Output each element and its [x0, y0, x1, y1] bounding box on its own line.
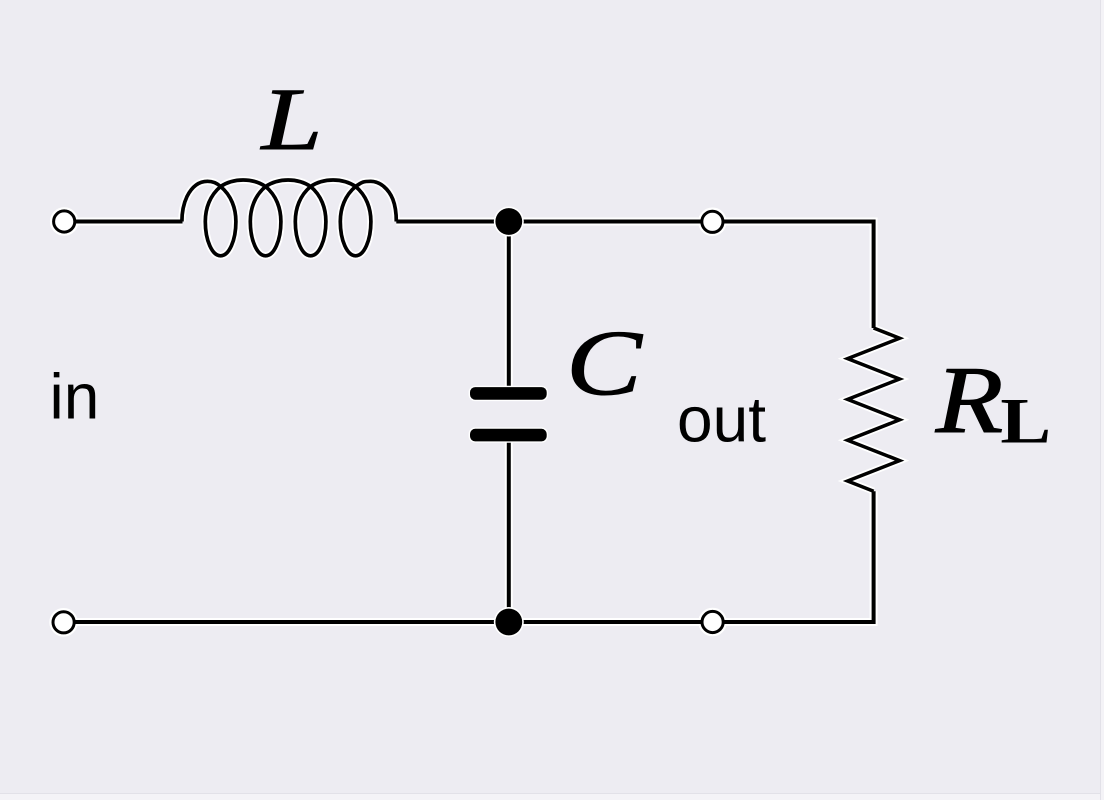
- terminal in top: [54, 211, 75, 232]
- svg-text:L: L: [259, 70, 322, 169]
- capacitor C plates: [469, 386, 548, 443]
- svg-text:C: C: [566, 313, 644, 415]
- resistor RL zigzag: [848, 328, 900, 491]
- svg-text:in: in: [50, 361, 100, 433]
- inductor L coil: [182, 180, 396, 256]
- svg-text:R: R: [935, 348, 1004, 453]
- svg-text:out: out: [677, 384, 766, 456]
- terminal in bottom: [53, 612, 74, 633]
- terminal out bottom: [702, 611, 723, 632]
- wire capacitor bottom: [507, 434, 511, 622]
- wire white casings: [53, 180, 900, 633]
- wire capacitor top: [507, 222, 511, 395]
- wire bottom + right lower vertical: [64, 491, 874, 622]
- junction node top: [494, 207, 524, 237]
- terminal out top: [702, 211, 723, 232]
- wire top (inductor to right corner): [396, 222, 873, 329]
- scrollbar bottom track: [0, 794, 1104, 800]
- scrollbar right track: [1101, 0, 1104, 800]
- wire top-left (in terminal to inductor): [75, 220, 182, 224]
- svg-text:L: L: [1000, 385, 1051, 457]
- junction node bottom: [494, 607, 524, 637]
